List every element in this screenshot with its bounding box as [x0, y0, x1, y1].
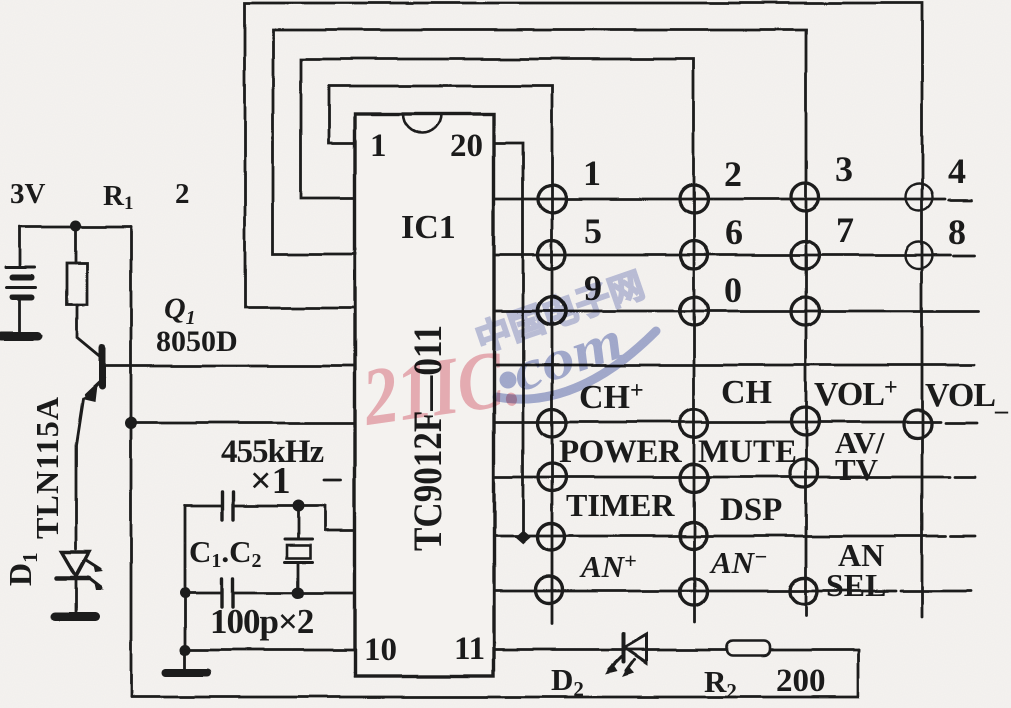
- key switch 9: [538, 297, 566, 325]
- ground (battery): [1, 332, 38, 341]
- svg-text:TIMER: TIMER: [566, 487, 675, 523]
- watermark 21IC pink: [357, 331, 526, 443]
- key switch VOL+: [791, 407, 819, 435]
- svg-text:3V: 3V: [10, 178, 46, 210]
- battery B 3V: [6, 227, 36, 331]
- wire IC pin 20: [494, 143, 523, 537]
- wire +3V top rail: [20, 226, 131, 229]
- svg-text:200: 200: [776, 663, 826, 699]
- svg-text:IC1: IC1: [401, 209, 456, 246]
- wire nested loop pin3 to column 3: [273, 30, 806, 616]
- svg-text:5: 5: [584, 211, 602, 251]
- key switch AN-: [680, 579, 707, 606]
- key switch CH+: [538, 409, 566, 437]
- key switch POWER: [538, 463, 566, 491]
- key switch 1: [538, 185, 566, 213]
- svg-text:2: 2: [724, 154, 742, 194]
- wire row8 AN: [494, 590, 972, 593]
- wire crystal bottom to IC pin 10: [185, 649, 355, 652]
- svg-text:1: 1: [370, 128, 387, 164]
- wire row4: [494, 364, 974, 367]
- svg-text:8050D: 8050D: [156, 325, 238, 358]
- svg-text:CH: CH: [721, 374, 772, 411]
- svg-text:3: 3: [835, 149, 853, 189]
- key switch AN SEL: [791, 578, 818, 605]
- svg-text:7: 7: [836, 210, 854, 250]
- svg-text:MUTE: MUTE: [698, 434, 797, 470]
- key switch MUTE: [680, 464, 708, 492]
- node C2 right: [292, 587, 304, 599]
- key switch AN+: [536, 577, 563, 604]
- ground (D1): [55, 613, 95, 622]
- node junction R1/battery: [71, 221, 82, 232]
- svg-text:2: 2: [175, 178, 190, 210]
- key switch TIMER: [538, 524, 565, 551]
- wire row2 keys 5-8: [494, 255, 974, 256]
- node pin20 row7: [515, 530, 531, 544]
- watermark chinese characters: [471, 266, 649, 360]
- wire row1 keys 1-4: [494, 199, 972, 200]
- key switch VOL-: [903, 410, 931, 438]
- wire row6 POWER: [494, 476, 975, 479]
- key switch 8: [906, 242, 933, 269]
- wire crystal left rail: [184, 506, 187, 650]
- wire row5 CH: [494, 422, 977, 423]
- key switch CH: [680, 409, 708, 437]
- key switch blank row3 col3: [791, 297, 819, 325]
- svg-text:10: 10: [364, 632, 397, 668]
- node left rail bottom: [180, 645, 191, 656]
- key switch DSP: [680, 522, 707, 549]
- svg-text:POWER: POWER: [559, 434, 683, 470]
- svg-text:20: 20: [450, 128, 483, 164]
- svg-text:4: 4: [948, 151, 966, 191]
- svg-text:1: 1: [583, 153, 601, 193]
- transistor Q1: [76, 348, 355, 549]
- svg-text:0: 0: [724, 270, 742, 310]
- wire nested loop pin2 to column 2: [301, 59, 694, 622]
- key switch 0: [680, 297, 708, 325]
- key switch 3: [791, 183, 819, 211]
- svg-text:TLN115A: TLN115A: [29, 397, 65, 539]
- node left rail C2: [180, 588, 191, 599]
- key switch 4: [906, 184, 933, 211]
- svg-text:6: 6: [725, 212, 743, 252]
- svg-text:8: 8: [948, 212, 966, 252]
- capacitor C1: [185, 492, 298, 520]
- wire bottom rail: [131, 650, 858, 697]
- wire C2 row to IC pin 9: [298, 592, 355, 595]
- watermark com blue script: [497, 309, 656, 404]
- wire row7 TIMER: [494, 535, 975, 538]
- resistor R2: [727, 641, 770, 656]
- capacitor C2: [185, 579, 298, 607]
- key switch AV/TV: [790, 459, 818, 487]
- wire row3 keys 9-0: [494, 310, 978, 313]
- wire vertical from +3V rail down left side: [130, 227, 133, 697]
- key switch 2: [680, 185, 708, 213]
- svg-text:100p×2: 100p×2: [210, 602, 313, 641]
- IC1 TC9012F-011: [355, 114, 494, 676]
- node junction at x131: [125, 417, 137, 429]
- wire to IC pin 6: [131, 422, 355, 425]
- wire nested loop pin4 to column 4: [245, 3, 922, 617]
- wire nested loop pin1 to column 1: [329, 86, 552, 624]
- crystal X1: [285, 506, 312, 593]
- wire node to IC pin 8: [298, 506, 355, 530]
- stub IC pin 7: [324, 479, 341, 482]
- svg-text:11: 11: [454, 631, 485, 667]
- node C1 right: [292, 500, 304, 512]
- key switch 5: [538, 241, 566, 269]
- resistor R1: [67, 226, 100, 357]
- LED D1: [57, 552, 104, 612]
- key switch 7: [791, 241, 819, 269]
- svg-text:TV: TV: [835, 452, 879, 487]
- svg-text:DSP: DSP: [720, 492, 782, 528]
- svg-text:C1.C2: C1.C2: [189, 534, 262, 572]
- LED D2: [605, 634, 646, 677]
- svg-text:SEL: SEL: [826, 567, 886, 603]
- ground (crystal): [166, 650, 207, 673]
- wire IC pin 11 to R2/D2 net: [494, 649, 858, 652]
- svg-text:×1: ×1: [250, 460, 291, 502]
- key switch 6: [680, 241, 708, 269]
